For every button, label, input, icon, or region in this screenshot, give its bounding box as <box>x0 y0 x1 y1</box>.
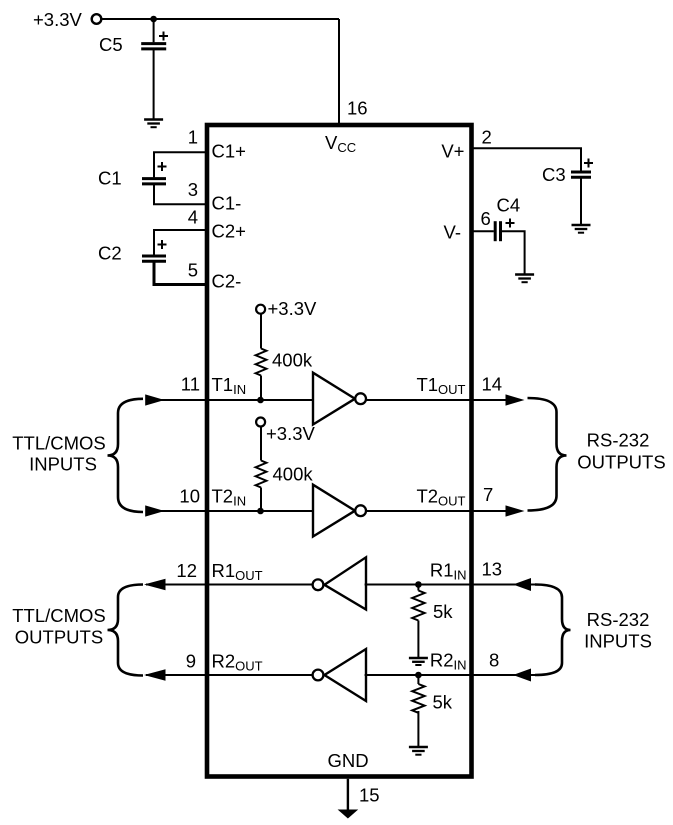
wire R1IN to 5k <box>417 585 419 591</box>
svg-text:C1: C1 <box>98 168 122 189</box>
arrow out of R1OUT <box>144 579 166 590</box>
svg-text:C2: C2 <box>98 243 122 264</box>
wire R to T1IN node <box>260 376 262 401</box>
wire terminal to R pull-up <box>260 426 262 460</box>
arrow into T2IN <box>145 505 164 516</box>
svg-text:1: 1 <box>188 127 198 148</box>
svg-text:C5: C5 <box>99 34 123 55</box>
inverter T1 driver <box>313 373 366 425</box>
svg-text:12: 12 <box>176 560 197 581</box>
svg-text:GND: GND <box>328 750 369 771</box>
inverter R2 receiver <box>313 649 366 701</box>
ground below R1 5k <box>409 658 428 665</box>
resistor 5k R1 <box>412 591 424 621</box>
junction T2IN <box>257 508 264 515</box>
wire 5k to ground <box>417 711 419 747</box>
svg-text:C4: C4 <box>497 195 521 216</box>
arrow out of T2OUT <box>506 505 525 516</box>
svg-text:TTL/CMOS: TTL/CMOS <box>12 605 106 626</box>
wire T1OUT row <box>365 399 521 401</box>
wire R2IN to 5k <box>417 675 419 684</box>
ground below R2 5k <box>409 747 428 755</box>
resistor 400k pull-up T2 <box>256 461 267 488</box>
wire C3 bottom lead <box>580 177 582 224</box>
svg-text:C2+: C2+ <box>212 221 246 242</box>
junction R2IN <box>415 672 422 679</box>
wire R2OUT row <box>146 674 312 676</box>
wire T1IN row <box>148 399 313 401</box>
svg-text:RS-232: RS-232 <box>587 609 650 630</box>
arrow into T1IN <box>145 394 164 405</box>
wire C5 bottom lead <box>153 49 155 119</box>
wire pin 1 stub <box>154 152 208 177</box>
node +3.3V supply terminal <box>92 14 102 24</box>
svg-text:OUTPUTS: OUTPUTS <box>577 452 665 473</box>
wire R1OUT row <box>146 584 312 586</box>
brace RS-232 outputs <box>528 398 567 511</box>
arrow out of T1OUT <box>506 394 525 405</box>
capacitor C2 <box>142 240 167 261</box>
svg-text:INPUTS: INPUTS <box>29 454 97 475</box>
wire 5k to ground <box>417 621 419 658</box>
svg-text:C1+: C1+ <box>212 141 246 162</box>
node +3.3V pull-up terminal T1 <box>256 305 265 314</box>
svg-text:15: 15 <box>359 785 380 806</box>
capacitor C4 <box>495 219 514 242</box>
junction R1IN <box>415 581 422 588</box>
arrow into R2IN <box>513 669 531 682</box>
op-amp / IC body outline (MAX3232 block) <box>207 125 472 777</box>
svg-text:400k: 400k <box>273 464 314 485</box>
arrow into R1IN <box>513 578 531 591</box>
wire terminal to R pull-up <box>260 313 262 348</box>
wire pin 4 stub <box>154 230 208 256</box>
svg-text:+3.3V: +3.3V <box>268 298 318 319</box>
wire pin 3 stub <box>154 184 208 204</box>
brace TTL/CMOS inputs <box>108 399 144 512</box>
wire R1IN row <box>365 584 536 586</box>
svg-text:+3.3V: +3.3V <box>33 9 83 30</box>
svg-text:C1-: C1- <box>212 193 242 214</box>
svg-text:14: 14 <box>482 374 503 395</box>
wire T2IN row <box>148 510 313 512</box>
brace RS-232 inputs <box>535 585 571 676</box>
svg-text:OUTPUTS: OUTPUTS <box>15 627 103 648</box>
svg-text:V+: V+ <box>441 141 464 162</box>
svg-text:6: 6 <box>481 208 491 229</box>
wire C5 top lead <box>153 19 155 42</box>
svg-text:C3: C3 <box>542 164 566 185</box>
wire pin 5 stub <box>154 261 208 284</box>
svg-text:+3.3V: +3.3V <box>266 423 316 444</box>
svg-text:400k: 400k <box>272 350 313 371</box>
ground below C3 <box>572 225 591 233</box>
wire pin 2 stub to C3 <box>471 148 582 171</box>
svg-text:11: 11 <box>181 374 200 395</box>
arrow out of R2OUT <box>144 669 166 680</box>
wire top rail from terminal to Vcc corner <box>102 18 339 20</box>
svg-text:2: 2 <box>482 127 492 148</box>
svg-text:TTL/CMOS: TTL/CMOS <box>12 433 106 454</box>
capacitor C3 <box>571 159 593 178</box>
junction T1IN <box>257 397 264 404</box>
svg-text:3: 3 <box>188 179 198 200</box>
svg-text:5: 5 <box>188 260 198 281</box>
ground arrow pin 15 <box>338 810 359 819</box>
wire C4 to ground <box>501 231 525 274</box>
svg-text:4: 4 <box>188 207 198 228</box>
wire pin 6 stub <box>471 230 494 232</box>
svg-text:7: 7 <box>483 484 493 505</box>
wire R to T2IN node <box>260 488 262 512</box>
svg-text:13: 13 <box>482 559 503 580</box>
wire R2IN row <box>365 674 536 676</box>
wire down to pin 16 <box>338 19 340 124</box>
wire T2OUT row <box>365 510 521 512</box>
svg-text:9: 9 <box>186 651 196 672</box>
svg-text:5k: 5k <box>433 692 453 713</box>
node +3.3V pull-up terminal T2 <box>256 418 265 427</box>
svg-text:5k: 5k <box>433 601 453 622</box>
resistor 400k pull-up T1 <box>256 349 267 376</box>
svg-text:8: 8 <box>489 650 499 671</box>
ground below C4 <box>515 275 534 283</box>
svg-text:16: 16 <box>347 98 368 119</box>
svg-text:C2-: C2- <box>212 271 242 292</box>
junction at C5 tap <box>150 16 157 23</box>
inverter T2 driver <box>313 485 366 537</box>
inverter R1 receiver <box>313 557 366 609</box>
capacitor C1 <box>142 162 167 184</box>
svg-text:RS-232: RS-232 <box>587 430 650 451</box>
brace TTL/CMOS outputs <box>108 585 144 676</box>
wire pin 15 stub <box>347 779 349 810</box>
resistor 5k R2 <box>412 684 424 713</box>
ground below C5 <box>144 120 163 128</box>
svg-text:INPUTS: INPUTS <box>584 631 652 652</box>
svg-text:V-: V- <box>444 222 461 243</box>
capacitor C5 <box>141 32 168 49</box>
svg-text:10: 10 <box>179 486 200 507</box>
